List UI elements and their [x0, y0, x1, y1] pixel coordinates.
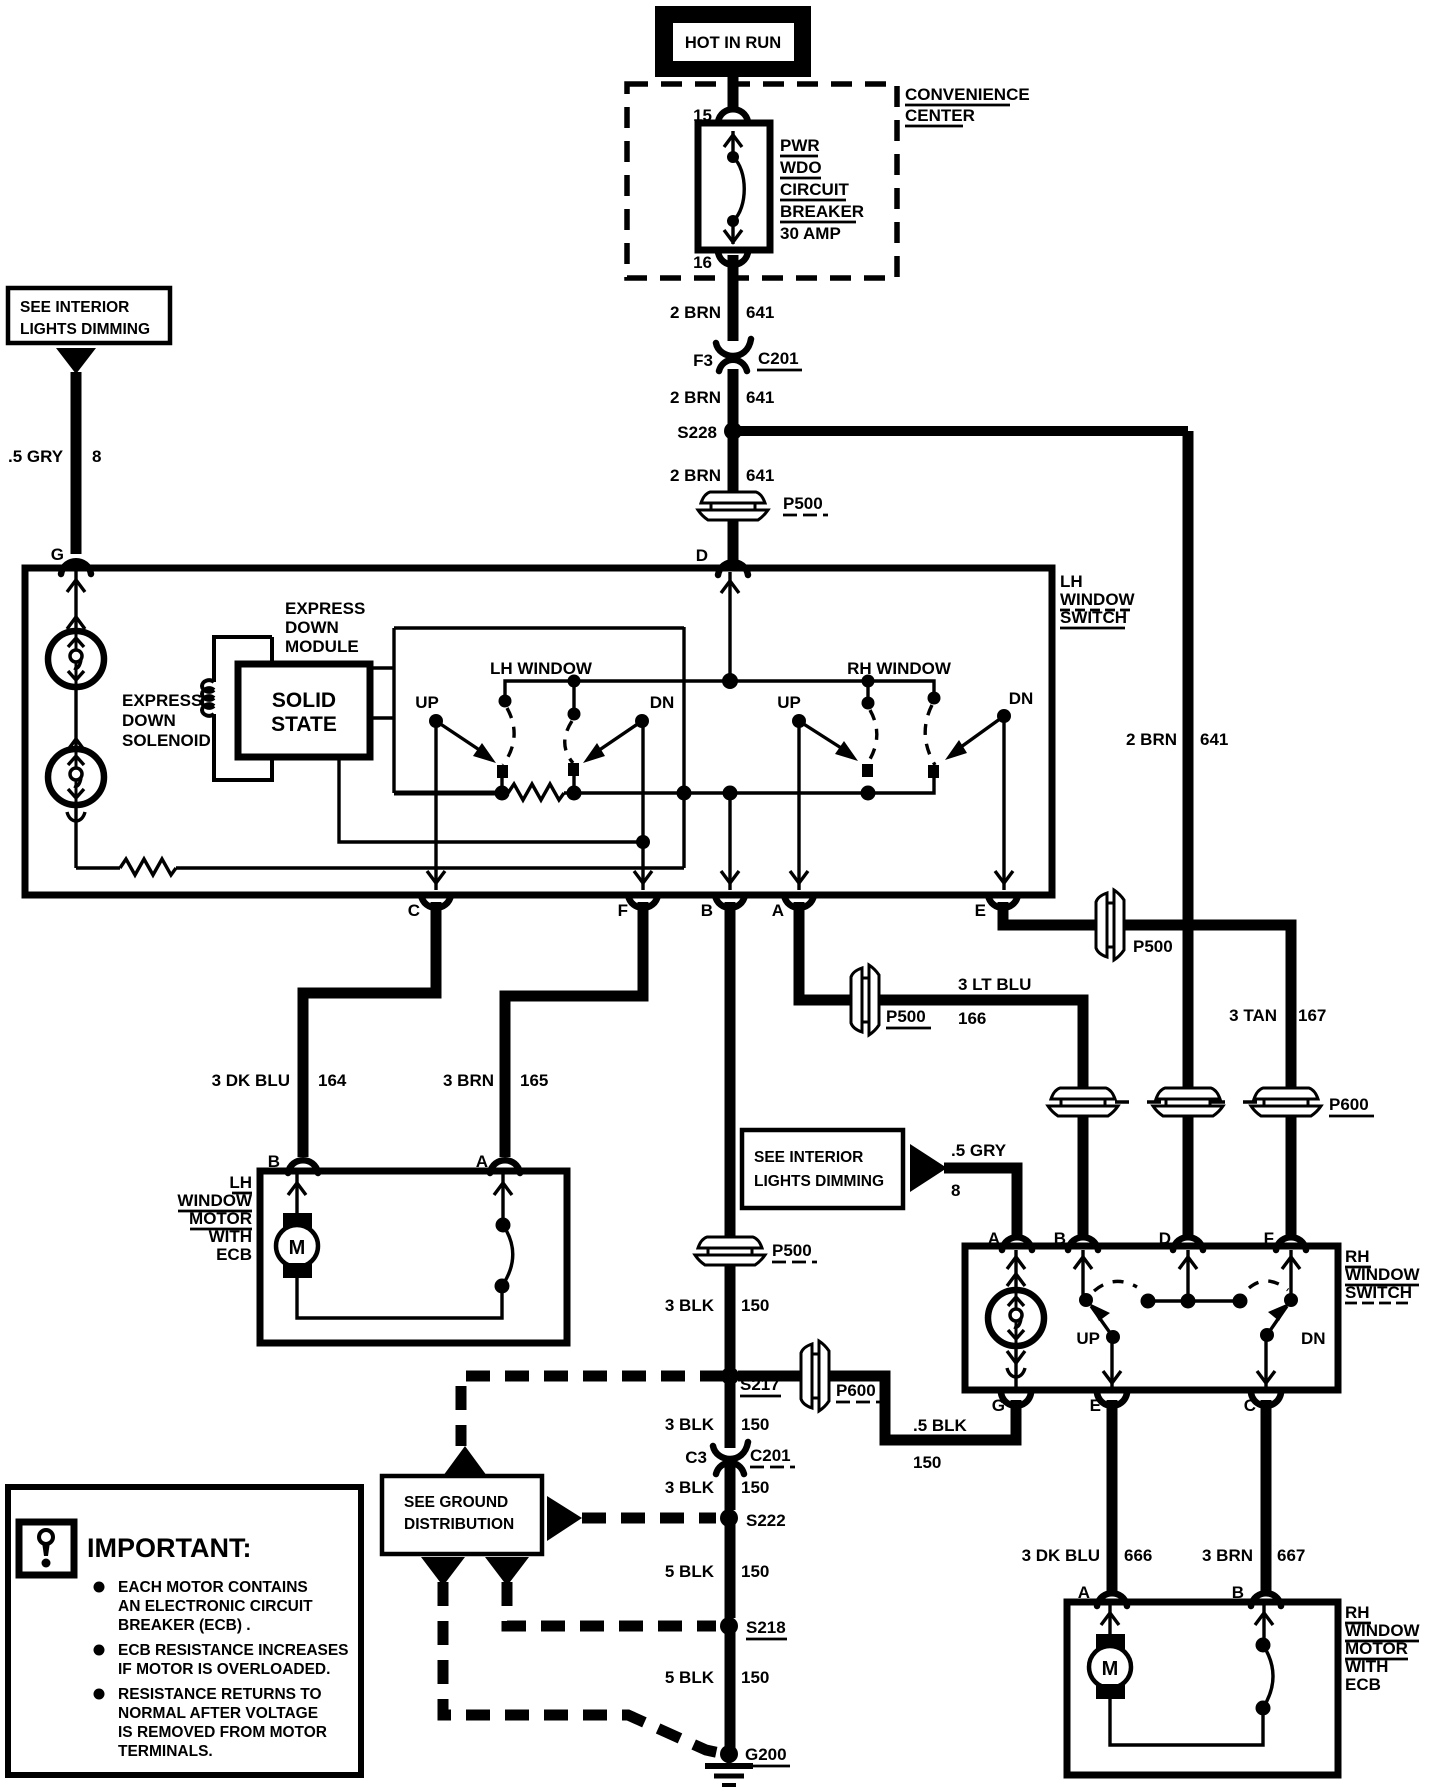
- LH window fixed contact left: [499, 695, 512, 708]
- connector P600 grommet on F wire of RH switch: [1251, 1088, 1374, 1116]
- svg-text:WINDOW: WINDOW: [1345, 1621, 1421, 1640]
- LH window switch label: [1060, 572, 1136, 628]
- svg-text:2 BRN: 2 BRN: [670, 303, 721, 322]
- terminal pin 16: [693, 252, 748, 272]
- wire lamp2 down to sense line: [67, 804, 85, 868]
- svg-text:G: G: [51, 545, 64, 564]
- connector C201 pin F3: [693, 339, 802, 371]
- terminal B of LH motor: [268, 1152, 318, 1173]
- connector P600 grommet on B wire of RH switch: [1048, 1088, 1118, 1116]
- RH window switch label: [1345, 1247, 1421, 1303]
- dashed link between P600 grommets: [1083, 1100, 1286, 1103]
- illumination lamp 1: [48, 631, 104, 687]
- svg-text:5 BLK: 5 BLK: [665, 1562, 715, 1581]
- svg-text:EXPRESS: EXPRESS: [285, 599, 365, 618]
- svg-text:STATE: STATE: [271, 713, 337, 736]
- svg-text:164: 164: [318, 1071, 347, 1090]
- svg-text:DOWN: DOWN: [285, 618, 339, 637]
- wire P600 to RH switch D: [1183, 1116, 1194, 1238]
- arrow from dimming box: [56, 348, 96, 374]
- EXPRESS DOWN MODULE label: [285, 599, 365, 656]
- connector P500 grommet on black wire: [695, 1237, 817, 1265]
- connector P600 grommet on ground wire: [801, 1341, 881, 1411]
- wire DN contact to terminal F: [634, 727, 652, 890]
- arrow into ground distribution (up): [443, 1446, 487, 1476]
- svg-text:8: 8: [92, 447, 101, 466]
- RH window motor box: [1067, 1602, 1338, 1775]
- circuit breaker PWR WDO 30 AMP: [698, 123, 770, 250]
- svg-text:150: 150: [913, 1453, 941, 1472]
- terminal D of RH switch: [1159, 1229, 1203, 1250]
- svg-text:3 LT BLU: 3 LT BLU: [958, 975, 1031, 994]
- svg-text:DN: DN: [650, 693, 675, 712]
- wire 3 BLK 150 S217 to C201: [665, 1382, 770, 1448]
- junction dots on return bus: [495, 786, 510, 801]
- RH window rocker dashed arc left: [867, 710, 877, 764]
- svg-text:C201: C201: [750, 1446, 791, 1465]
- svg-text:RH: RH: [1345, 1247, 1370, 1266]
- svg-text:3 DK BLU: 3 DK BLU: [1022, 1546, 1100, 1565]
- svg-text:MODULE: MODULE: [285, 637, 359, 656]
- IMPORTANT note box: [8, 1487, 361, 1775]
- wire 3 BLK 150 to S217: [665, 1265, 770, 1370]
- svg-text:3 DK BLU: 3 DK BLU: [212, 1071, 290, 1090]
- return bus continuation to RH contacts: [564, 778, 934, 793]
- svg-text:641: 641: [1200, 730, 1228, 749]
- connector P600 grommet on D wire of RH switch: [1153, 1088, 1223, 1116]
- svg-text:F3: F3: [693, 351, 713, 370]
- wire 5 BLK 150 S218 to G200: [665, 1632, 770, 1748]
- LH motor internal return wire: [297, 1278, 502, 1318]
- svg-text:RH: RH: [1345, 1603, 1370, 1622]
- important icon: [19, 1522, 74, 1575]
- terminal A: [772, 895, 814, 920]
- SEE INTERIOR LIGHTS DIMMING reference box (top left): [8, 288, 170, 343]
- svg-text:NORMAL AFTER VOLTAGE: NORMAL AFTER VOLTAGE: [118, 1705, 318, 1722]
- svg-text:P500: P500: [886, 1007, 926, 1026]
- wire P500 to terminal D: [728, 520, 739, 560]
- svg-text:3 BLK: 3 BLK: [665, 1415, 715, 1434]
- svg-text:LIGHTS DIMMING: LIGHTS DIMMING: [20, 321, 150, 338]
- RH window fixed contact right: [928, 692, 941, 705]
- connector C201 pin C3: [685, 1442, 795, 1474]
- svg-text:30 AMP: 30 AMP: [780, 224, 841, 243]
- svg-text:BREAKER: BREAKER: [780, 202, 864, 221]
- motor M RH with brushes: [1089, 1605, 1131, 1699]
- wire 2 BRN 641 breaker to C201: [728, 255, 739, 341]
- terminal C: [408, 895, 451, 920]
- resistor (lamp string): [120, 859, 176, 875]
- LH motor ECB contact: [494, 1174, 513, 1294]
- svg-text:CIRCUIT: CIRCUIT: [780, 180, 850, 199]
- express down module U1 SOLID STATE: [238, 664, 370, 757]
- svg-text:P500: P500: [772, 1241, 812, 1260]
- svg-text:WITH: WITH: [209, 1227, 252, 1246]
- splice S217: [721, 1367, 781, 1396]
- LH window motor label: [177, 1173, 253, 1264]
- svg-text:P600: P600: [1329, 1095, 1369, 1114]
- convenience center label: [905, 85, 1030, 126]
- terminal A of LH motor: [476, 1152, 520, 1173]
- RH switch lamp branch: [1007, 1250, 1025, 1292]
- note bullet 3: [94, 1686, 327, 1760]
- wire 2 BRN 641 S228 to P500: [728, 436, 739, 496]
- wire P600 to RH switch B: [1078, 1116, 1089, 1238]
- wire 3 BLK 150 C201 to S222: [665, 1466, 770, 1510]
- svg-text:DN: DN: [1301, 1329, 1326, 1348]
- svg-text:WINDOW: WINDOW: [1345, 1265, 1421, 1284]
- svg-text:3 BRN: 3 BRN: [443, 1071, 494, 1090]
- svg-text:SEE INTERIOR: SEE INTERIOR: [20, 299, 129, 316]
- wire DN to terminal C: [1257, 1335, 1275, 1388]
- svg-text:5 BLK: 5 BLK: [665, 1668, 715, 1687]
- wire from HOT IN RUN to breaker pin 15: [728, 77, 739, 112]
- svg-text:DISTRIBUTION: DISTRIBUTION: [404, 1516, 514, 1533]
- wire lamp1 to lamp2: [67, 686, 85, 751]
- terminal B: [701, 895, 745, 920]
- svg-text:666: 666: [1124, 1546, 1152, 1565]
- sense line with resistor to inner frame: [76, 866, 120, 869]
- svg-text:.5 GRY: .5 GRY: [8, 447, 64, 466]
- dashed ground wire to S218: [507, 1582, 716, 1626]
- svg-text:DOWN: DOWN: [122, 711, 176, 730]
- RH switch UP dashed arc: [1094, 1281, 1137, 1291]
- breaker value label PWR WDO CIRCUIT BREAKER 30 AMP: [780, 136, 864, 243]
- svg-text:IF MOTOR IS OVERLOADED.: IF MOTOR IS OVERLOADED.: [118, 1661, 330, 1678]
- svg-text:EACH MOTOR CONTAINS: EACH MOTOR CONTAINS: [118, 1579, 308, 1596]
- wire 2 BRN 641 right rail down to P600: [1183, 431, 1194, 1092]
- wire branch S228 to right rail: [738, 426, 1188, 436]
- svg-text:BREAKER (ECB) .: BREAKER (ECB) .: [118, 1617, 251, 1634]
- svg-text:IMPORTANT:: IMPORTANT:: [87, 1533, 251, 1563]
- svg-text:ECB: ECB: [1345, 1675, 1381, 1694]
- splice S228: [677, 422, 742, 442]
- svg-text:UP: UP: [1076, 1329, 1100, 1348]
- svg-text:SOLID: SOLID: [272, 689, 336, 712]
- svg-text:S217: S217: [740, 1375, 780, 1394]
- svg-text:A: A: [1078, 1583, 1090, 1602]
- svg-text:RH WINDOW: RH WINDOW: [847, 659, 952, 678]
- arrow from ground distribution (down right): [485, 1557, 529, 1586]
- wire solid state bottom to DN contact line: [339, 757, 643, 842]
- splice S218: [720, 1617, 787, 1639]
- svg-text:ECB: ECB: [216, 1245, 252, 1264]
- svg-text:WINDOW: WINDOW: [177, 1191, 253, 1210]
- wire A terminal to P500 and RH switch B: [799, 902, 1083, 1092]
- svg-text:SOLENOID: SOLENOID: [122, 731, 211, 750]
- svg-text:UP: UP: [777, 693, 801, 712]
- inner frame left vertical: [392, 628, 395, 793]
- svg-text:D: D: [1159, 1229, 1171, 1248]
- svg-text:SEE INTERIOR: SEE INTERIOR: [754, 1149, 863, 1166]
- svg-text:ECB RESISTANCE INCREASES: ECB RESISTANCE INCREASES: [118, 1642, 349, 1659]
- svg-text:D: D: [696, 546, 708, 565]
- dashed ground wire to G200: [443, 1582, 720, 1753]
- svg-text:3 TAN: 3 TAN: [1229, 1006, 1277, 1025]
- wire DN RH to terminal E: [995, 722, 1013, 890]
- wire solid state to inner frame upper: [370, 666, 394, 669]
- terminal E of RH switch: [1090, 1393, 1127, 1415]
- svg-text:RESISTANCE RETURNS TO: RESISTANCE RETURNS TO: [118, 1686, 322, 1703]
- svg-text:3 BLK: 3 BLK: [665, 1478, 715, 1497]
- illumination lamp RH switch: [988, 1290, 1044, 1346]
- svg-text:.5 BLK: .5 BLK: [913, 1416, 968, 1435]
- wire .5 GRY 8 to terminal G: [8, 372, 101, 554]
- svg-text:2 BRN: 2 BRN: [670, 388, 721, 407]
- RH window moving contact right: [928, 765, 939, 778]
- wire E of RH switch to RH motor A 3 DK BLU 666: [1022, 1400, 1153, 1591]
- svg-text:150: 150: [741, 1296, 769, 1315]
- svg-text:2 BRN: 2 BRN: [670, 466, 721, 485]
- LH window moving contact right: [568, 763, 579, 793]
- lamp to terminal G wire: [1007, 1344, 1025, 1388]
- connector P500 grommet (on E wire): [1096, 890, 1173, 960]
- ground G200: [705, 1745, 790, 1785]
- svg-text:CENTER: CENTER: [905, 106, 975, 125]
- LH window rocker dashed arc right: [565, 721, 573, 763]
- LH window switch box: [25, 568, 1052, 895]
- RH window rocker dashed arc right: [925, 705, 935, 765]
- wire label 3 LT BLU 166: [958, 975, 1031, 1028]
- svg-text:C201: C201: [758, 349, 799, 368]
- svg-text:150: 150: [741, 1415, 769, 1434]
- terminal C of RH switch: [1244, 1393, 1281, 1415]
- wire 3 DK BLU 164 terminal C to LH motor B: [212, 902, 436, 1157]
- svg-text:165: 165: [520, 1071, 548, 1090]
- note bullet 2: [94, 1642, 349, 1678]
- wire label 3 TAN 167: [1229, 1006, 1326, 1025]
- LH window motor box: [260, 1171, 567, 1343]
- inner frame top: [394, 626, 684, 629]
- svg-text:S228: S228: [677, 423, 717, 442]
- wire UP RH to terminal A: [790, 727, 808, 890]
- wire solid state to inner frame lower: [370, 716, 394, 719]
- svg-text:E: E: [975, 901, 986, 920]
- svg-text:.5 GRY: .5 GRY: [951, 1141, 1007, 1160]
- svg-text:3 BLK: 3 BLK: [665, 1296, 715, 1315]
- wire 3 BLK 150 terminal B down: [725, 902, 736, 1240]
- svg-text:SWITCH: SWITCH: [1060, 608, 1127, 627]
- svg-text:M: M: [1102, 1658, 1119, 1680]
- wire resistor to right inner vertical: [176, 866, 684, 869]
- wire 2 BRN 641 C201 to S228: [728, 369, 739, 424]
- RH switch D bar: [1141, 1250, 1248, 1309]
- UP contact RH: [777, 693, 858, 761]
- svg-text:C3: C3: [685, 1448, 707, 1467]
- svg-text:MOTOR: MOTOR: [189, 1209, 252, 1228]
- svg-text:WITH: WITH: [1345, 1657, 1388, 1676]
- RH window switch box: [965, 1246, 1338, 1390]
- RH window fixed contact left stub: [862, 675, 875, 710]
- svg-text:P500: P500: [1133, 937, 1173, 956]
- EXPRESS DOWN SOLENOID label: [122, 691, 211, 750]
- dashed ground wire to S222: [582, 1513, 716, 1524]
- RH motor ECB contact: [1255, 1605, 1273, 1716]
- svg-text:F: F: [618, 901, 628, 920]
- RH switch DN dashed arc: [1249, 1281, 1288, 1290]
- svg-text:16: 16: [693, 253, 712, 272]
- wire P600 to RH switch F: [1286, 1116, 1297, 1238]
- switch return bus line: [394, 791, 508, 796]
- LH window rocker dashed arc left: [503, 708, 514, 765]
- terminal F of RH switch: [1264, 1229, 1306, 1250]
- svg-text:150: 150: [741, 1478, 769, 1497]
- svg-text:PWR: PWR: [780, 136, 820, 155]
- terminal A of RH switch: [988, 1229, 1032, 1250]
- terminal F: [618, 895, 658, 920]
- svg-text:M: M: [289, 1237, 306, 1259]
- svg-text:641: 641: [746, 466, 774, 485]
- motor M LH with brushes: [276, 1174, 318, 1278]
- svg-text:TERMINALS.: TERMINALS.: [118, 1743, 213, 1760]
- svg-text:EXPRESS: EXPRESS: [122, 691, 202, 710]
- node D feed line inside switch: [728, 572, 731, 681]
- terminal B of RH motor: [1232, 1583, 1281, 1606]
- inner frame right vertical: [682, 627, 685, 868]
- svg-text:SEE GROUND: SEE GROUND: [404, 1494, 508, 1511]
- RH switch DN contact: [1260, 1250, 1326, 1348]
- connector P500 grommet on feed wire: [698, 492, 828, 520]
- svg-text:2 BRN: 2 BRN: [1126, 730, 1177, 749]
- terminal G of RH switch: [992, 1393, 1031, 1415]
- svg-text:641: 641: [746, 388, 774, 407]
- svg-text:167: 167: [1298, 1006, 1326, 1025]
- svg-text:S218: S218: [746, 1618, 786, 1637]
- terminal G of LH window switch: [51, 545, 91, 574]
- svg-text:P600: P600: [836, 1381, 876, 1400]
- svg-text:SWITCH: SWITCH: [1345, 1283, 1412, 1302]
- connector P500 grommet (LH door boot): [851, 965, 931, 1035]
- splice S222: [720, 1509, 786, 1530]
- svg-text:667: 667: [1277, 1546, 1305, 1565]
- node G internal lamp string: [67, 571, 85, 632]
- svg-text:A: A: [988, 1229, 1000, 1248]
- power source HOT IN RUN: [655, 6, 811, 77]
- resistor (switch bus): [508, 784, 564, 800]
- arrow from dimming box to wire: [910, 1144, 947, 1192]
- terminal B of RH switch: [1054, 1229, 1098, 1250]
- svg-text:HOT IN RUN: HOT IN RUN: [685, 34, 781, 52]
- illumination lamp 2: [48, 749, 104, 805]
- LH window fixed contact right stub: [568, 675, 581, 721]
- svg-text:LH: LH: [1060, 572, 1083, 591]
- wire E terminal to P500 and RH switch F: [1003, 902, 1291, 1092]
- svg-text:S222: S222: [746, 1511, 786, 1530]
- wire .5 BLK 150 terminal G to P600 and S217: [738, 1376, 1016, 1472]
- express down solenoid coil loop: [202, 637, 272, 780]
- arrow from ground distribution (right): [547, 1496, 582, 1541]
- RH window motor label: [1345, 1603, 1421, 1694]
- svg-text:641: 641: [746, 303, 774, 322]
- wire UP contact to terminal C: [427, 727, 445, 890]
- wire UP to terminal E: [1103, 1337, 1121, 1388]
- svg-text:A: A: [476, 1152, 488, 1171]
- wire 3 BRN 165 terminal F to LH motor A: [443, 902, 643, 1157]
- svg-text:DN: DN: [1009, 689, 1034, 708]
- wire return bus to terminal B: [721, 793, 739, 890]
- svg-text:F: F: [1264, 1229, 1274, 1248]
- svg-text:IS REMOVED FROM MOTOR: IS REMOVED FROM MOTOR: [118, 1724, 327, 1741]
- RH motor internal return wire: [1110, 1699, 1263, 1745]
- RH switch UP contact: [1074, 1250, 1120, 1348]
- terminal E: [975, 895, 1018, 920]
- svg-text:150: 150: [741, 1562, 769, 1581]
- wire .5 GRY 8 to RH switch A: [944, 1141, 1017, 1238]
- DN contact LH: [583, 693, 674, 763]
- svg-text:B: B: [1054, 1229, 1066, 1248]
- terminal A of RH motor: [1078, 1583, 1127, 1606]
- svg-text:UP: UP: [415, 693, 439, 712]
- svg-text:A: A: [772, 901, 784, 920]
- note bullet 1: [94, 1579, 314, 1634]
- svg-text:AN ELECTRONIC CIRCUIT: AN ELECTRONIC CIRCUIT: [118, 1598, 313, 1615]
- svg-text:CONVENIENCE: CONVENIENCE: [905, 85, 1030, 104]
- svg-text:C: C: [408, 901, 420, 920]
- terminal pin 15: [693, 106, 748, 125]
- SEE INTERIOR LIGHTS DIMMING reference box (middle): [742, 1130, 903, 1208]
- wire C of RH switch to RH motor B 3 BRN 667: [1202, 1400, 1305, 1591]
- arrow from ground distribution (down left): [421, 1557, 465, 1586]
- SEE GROUND DISTRIBUTION reference box: [382, 1476, 542, 1554]
- svg-text:B: B: [268, 1152, 280, 1171]
- terminal D of LH window switch: [696, 546, 748, 575]
- UP contact LH: [415, 693, 496, 763]
- LH window moving contact left: [497, 765, 508, 793]
- wire 5 BLK 150 S222 to S218: [665, 1524, 770, 1618]
- svg-text:3 BRN: 3 BRN: [1202, 1546, 1253, 1565]
- svg-text:8: 8: [951, 1181, 960, 1200]
- svg-text:166: 166: [958, 1009, 986, 1028]
- convenience center dashed box: [627, 84, 897, 278]
- svg-text:B: B: [1232, 1583, 1244, 1602]
- RH window moving contact left: [862, 764, 873, 777]
- svg-text:LH WINDOW: LH WINDOW: [490, 659, 593, 678]
- dashed ground wire S217 to ground distribution: [461, 1376, 724, 1446]
- svg-text:WDO: WDO: [780, 158, 822, 177]
- svg-text:G200: G200: [745, 1745, 787, 1764]
- svg-text:B: B: [701, 901, 713, 920]
- svg-text:WINDOW: WINDOW: [1060, 590, 1136, 609]
- junction dot D to bus: [722, 673, 738, 689]
- DN contact RH: [945, 689, 1033, 760]
- svg-text:MOTOR: MOTOR: [1345, 1639, 1408, 1658]
- svg-text:P500: P500: [783, 494, 823, 513]
- svg-text:LIGHTS DIMMING: LIGHTS DIMMING: [754, 1173, 884, 1190]
- svg-text:150: 150: [741, 1668, 769, 1687]
- common feed bus line: [505, 681, 934, 700]
- svg-text:LH: LH: [229, 1173, 252, 1192]
